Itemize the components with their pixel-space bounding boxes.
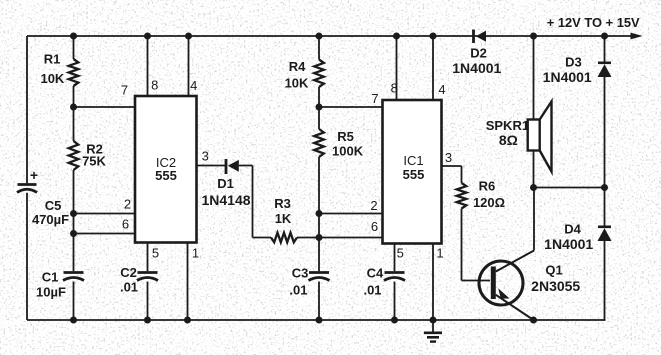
svg-text:10K: 10K: [40, 71, 64, 86]
junction top rail / speaker: [530, 33, 537, 40]
wire speaker bottom: [533, 151, 535, 188]
svg-text:100K: 100K: [332, 144, 364, 159]
svg-text:8: 8: [151, 77, 158, 92]
junction top rail / R4: [316, 33, 323, 40]
wire R6 to Q1 base: [462, 209, 491, 281]
svg-text:6: 6: [122, 217, 129, 232]
svg-text:C5: C5: [45, 198, 62, 213]
wire IC1 pin8 to top rail: [396, 36, 398, 100]
wire R4 top feed: [318, 36, 320, 60]
svg-text:4: 4: [438, 82, 445, 97]
wire bottom ground rail: [27, 319, 606, 321]
diode D4 1N4001: [598, 227, 612, 241]
svg-text:1: 1: [436, 246, 443, 261]
junction speaker/collector node: [530, 184, 537, 191]
resistor R1: [69, 59, 79, 86]
svg-text:1: 1: [192, 246, 199, 261]
svg-text:D4: D4: [564, 222, 581, 237]
wire C2 to ground rail: [147, 282, 149, 321]
resistor R3: [271, 233, 297, 243]
wire R2 to C1 segment: [73, 170, 75, 271]
svg-text:C3: C3: [292, 265, 309, 280]
svg-text:1N4001: 1N4001: [452, 60, 501, 76]
junction Q1 emitter-ground: [530, 317, 537, 324]
wire IC2 pin1 to ground rail: [187, 243, 189, 321]
wire C1 to ground rail: [73, 282, 75, 321]
svg-text:+: +: [30, 167, 38, 183]
resistor R2: [69, 141, 79, 170]
junction top rail / IC1 pin4: [430, 33, 437, 40]
diode D2 1N4001: [474, 30, 487, 44]
wire IC2 pin6 to left rail: [74, 233, 136, 235]
diode D3 1N4001: [598, 63, 612, 77]
wire IC2 pin4 to top rail: [188, 36, 190, 96]
wire IC1 pin3 out: [442, 166, 462, 183]
wire IC2 pin2 to left rail: [74, 213, 136, 215]
svg-text:C1: C1: [42, 270, 59, 285]
wire speaker top feed: [533, 36, 535, 120]
junction C2-ground: [144, 317, 151, 324]
svg-text:4: 4: [190, 78, 197, 93]
svg-text:R1: R1: [44, 52, 61, 67]
svg-text:2: 2: [370, 198, 377, 213]
junction node pin7 tap (mid): [316, 104, 323, 111]
svg-text:1K: 1K: [275, 211, 292, 226]
svg-text:2N3055: 2N3055: [531, 278, 580, 294]
junction pin2 tap (mid): [316, 210, 323, 217]
wire IC2 pin7 to R1/R2 node: [74, 106, 136, 108]
junction IC2 pin1-ground: [184, 317, 191, 324]
capacitor C5 (electrolytic): [17, 185, 37, 193]
svg-text:1N4001: 1N4001: [544, 236, 593, 252]
svg-text:1N4001: 1N4001: [543, 69, 592, 85]
svg-text:6: 6: [371, 219, 378, 234]
wire IC1 pin6 to node: [319, 237, 383, 239]
wire C4 to ground rail: [394, 282, 396, 321]
wire D4 to bottom rail: [604, 241, 606, 320]
wire IC1 pin7 to R4/R5 node: [319, 106, 383, 108]
svg-text:.01: .01: [363, 282, 381, 297]
wire R5 to C3 segment: [318, 157, 320, 271]
svg-text:R4: R4: [289, 59, 306, 74]
junction top rail / IC2 pin8: [144, 33, 151, 40]
op-amp/timer IC1 555 body: [383, 100, 442, 244]
svg-text:D3: D3: [565, 54, 582, 69]
junction top rail / IC1 pin8: [393, 33, 400, 40]
svg-text:5: 5: [397, 246, 404, 261]
junction pin6 tap (left): [70, 230, 77, 237]
wire IC1 pin1 to ground rail: [432, 244, 434, 321]
svg-text:Q1: Q1: [545, 263, 562, 278]
junction IC1 pin1-ground: [430, 317, 437, 324]
wire D1 to jog: [239, 166, 271, 238]
resistor R4: [314, 60, 324, 88]
capacitor C3: [309, 273, 330, 281]
wire IC1 pin2 to node: [319, 213, 383, 215]
wire D4 top feed: [604, 188, 606, 227]
svg-text:2: 2: [124, 197, 131, 212]
svg-text:C2: C2: [120, 265, 137, 280]
wire Q1 collector up: [533, 188, 535, 251]
junction C1-ground: [70, 317, 77, 324]
svg-text:+ 12V TO + 15V: + 12V TO + 15V: [547, 15, 640, 30]
junction top rail / R1: [70, 33, 77, 40]
svg-text:8Ω: 8Ω: [499, 132, 518, 148]
svg-text:10µF: 10µF: [36, 285, 66, 300]
capacitor C4: [384, 273, 405, 281]
svg-text:5: 5: [152, 246, 159, 261]
svg-text:R6: R6: [479, 178, 496, 193]
wire IC2 pin8 to top rail: [147, 36, 149, 96]
svg-text:8: 8: [391, 81, 398, 96]
wire R1-R2 node segment: [73, 86, 75, 141]
svg-text:3: 3: [202, 149, 209, 164]
transistor Q1 2N3055: [479, 251, 534, 321]
junction top rail / IC2 pin4: [185, 33, 192, 40]
wire IC2 pin3 out: [197, 165, 226, 167]
svg-text:555: 555: [403, 167, 425, 182]
wire IC1 pin5 to C4: [394, 244, 396, 272]
junction pin2 tap (left): [70, 210, 77, 217]
junction C4-ground: [391, 317, 398, 324]
junction C3-ground: [316, 317, 323, 324]
wire R3 to pin6 node: [297, 237, 319, 239]
svg-text:SPKR1: SPKR1: [486, 118, 529, 133]
svg-text:.01: .01: [120, 280, 138, 295]
wire IC1 pin4 to top rail: [432, 36, 434, 100]
junction D4 top node: [601, 184, 608, 191]
wire D3 top feed: [604, 36, 606, 62]
resistor R6: [457, 183, 467, 209]
junction node pin7 tap (left): [70, 104, 77, 111]
capacitor C2: [137, 273, 158, 281]
svg-text:1N4148: 1N4148: [201, 192, 250, 208]
svg-text:7: 7: [371, 91, 378, 106]
svg-text:C4: C4: [367, 265, 384, 280]
junction top rail / D3: [601, 33, 608, 40]
wire left rail (C5 branch): [26, 36, 28, 320]
svg-text:R3: R3: [274, 196, 291, 211]
ground: [424, 320, 442, 342]
wire C3 to ground rail: [318, 282, 320, 321]
top rail arrowhead (+V feed): [631, 33, 643, 40]
wire IC2 pin5 to C2: [147, 243, 149, 272]
svg-text:7: 7: [121, 83, 128, 98]
svg-text:R5: R5: [337, 129, 354, 144]
wire D3 to node: [604, 77, 606, 188]
capacitor C1: [63, 273, 84, 281]
svg-text:IC1: IC1: [403, 153, 423, 168]
wire R1 top feed: [73, 36, 75, 59]
svg-text:3: 3: [445, 150, 452, 165]
speaker SPKR1: [528, 102, 552, 172]
resistor R5: [314, 129, 324, 157]
svg-text:.01: .01: [289, 283, 307, 298]
wire top +V rail: [27, 35, 631, 37]
svg-text:470µF: 470µF: [32, 212, 69, 227]
wire collector node to D4 column: [534, 187, 605, 189]
svg-text:D2: D2: [470, 45, 487, 60]
op-amp/timer IC2 555 body: [135, 96, 197, 243]
junction pin6/R3 tap (mid): [316, 234, 323, 241]
svg-text:10K: 10K: [285, 75, 309, 90]
svg-text:555: 555: [155, 168, 177, 183]
wire R4-R5 node segment: [318, 87, 320, 129]
svg-text:120Ω: 120Ω: [473, 195, 505, 210]
svg-text:75K: 75K: [82, 154, 106, 169]
svg-text:D1: D1: [217, 176, 234, 191]
diode D1 1N4148: [226, 159, 239, 174]
